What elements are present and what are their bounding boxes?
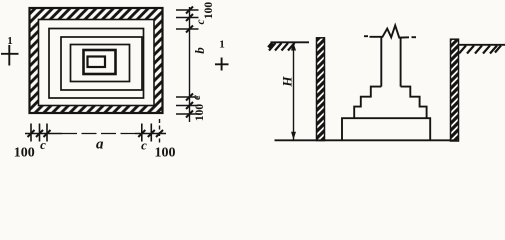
column left edge xyxy=(380,37,382,87)
svg-text:100: 100 xyxy=(14,146,35,159)
svg-text:b: b xyxy=(192,47,207,54)
left ground hatch strokes xyxy=(269,43,295,51)
H bottom arrowhead xyxy=(291,132,296,140)
left ground bold mark xyxy=(269,43,273,48)
svg-text:1: 1 xyxy=(219,39,225,51)
hatched border band fill xyxy=(30,8,163,113)
tick at x=31 xyxy=(30,124,32,142)
tick at y=29 xyxy=(176,28,199,30)
right steps xyxy=(401,87,427,118)
band inner rectangle xyxy=(39,20,155,106)
tick at x=141.8 xyxy=(141,124,143,142)
left ground line xyxy=(271,41,310,43)
thick rectangle D (foundation outline) xyxy=(84,50,116,74)
tick at x=159.5 (dashed) xyxy=(159,119,161,145)
vertical dimension line xyxy=(189,7,191,122)
H top arrowhead xyxy=(291,43,296,51)
right marker cross xyxy=(215,58,229,71)
svg-text:c: c xyxy=(141,138,147,153)
break line left dash xyxy=(364,35,368,37)
svg-text:a: a xyxy=(96,137,104,153)
svg-text:H: H xyxy=(280,76,295,88)
svg-text:100: 100 xyxy=(155,146,176,159)
right pit wall xyxy=(451,39,459,141)
H dimension line xyxy=(293,42,295,140)
right ground line xyxy=(459,44,505,46)
dimension line dashed middle xyxy=(62,133,135,135)
dimension line xyxy=(25,133,166,135)
svg-text:100: 100 xyxy=(194,104,206,122)
left pit wall xyxy=(317,38,325,141)
tick at x=47 xyxy=(46,124,48,142)
left steps xyxy=(354,87,381,118)
inner rectangle E (column) xyxy=(88,57,106,68)
svg-text:c: c xyxy=(191,95,203,100)
slope contour rectangle C xyxy=(71,45,130,82)
tick at y=17.5 xyxy=(176,17,199,19)
base slab xyxy=(342,118,430,140)
tick at y=10 xyxy=(176,9,199,11)
tick at y=114 xyxy=(176,113,199,115)
svg-text:100: 100 xyxy=(203,2,215,20)
column break line with zigzag xyxy=(370,25,410,37)
left marker cross xyxy=(1,45,19,66)
tick at x=151.3 xyxy=(150,124,152,142)
break line right dash xyxy=(412,36,417,38)
right ground hatch strokes xyxy=(459,46,501,54)
tick at y=97 xyxy=(176,96,199,98)
svg-text:c: c xyxy=(40,137,46,152)
tick at x=39.5 xyxy=(39,124,41,142)
pit bottom line xyxy=(275,139,458,141)
outer rectangle xyxy=(30,8,163,113)
tick at y=105.5 xyxy=(176,105,199,107)
slope contour rectangle A xyxy=(49,29,144,99)
slope contour rectangle B xyxy=(61,37,142,90)
column right edge xyxy=(400,38,402,87)
svg-text:c: c xyxy=(195,19,207,24)
